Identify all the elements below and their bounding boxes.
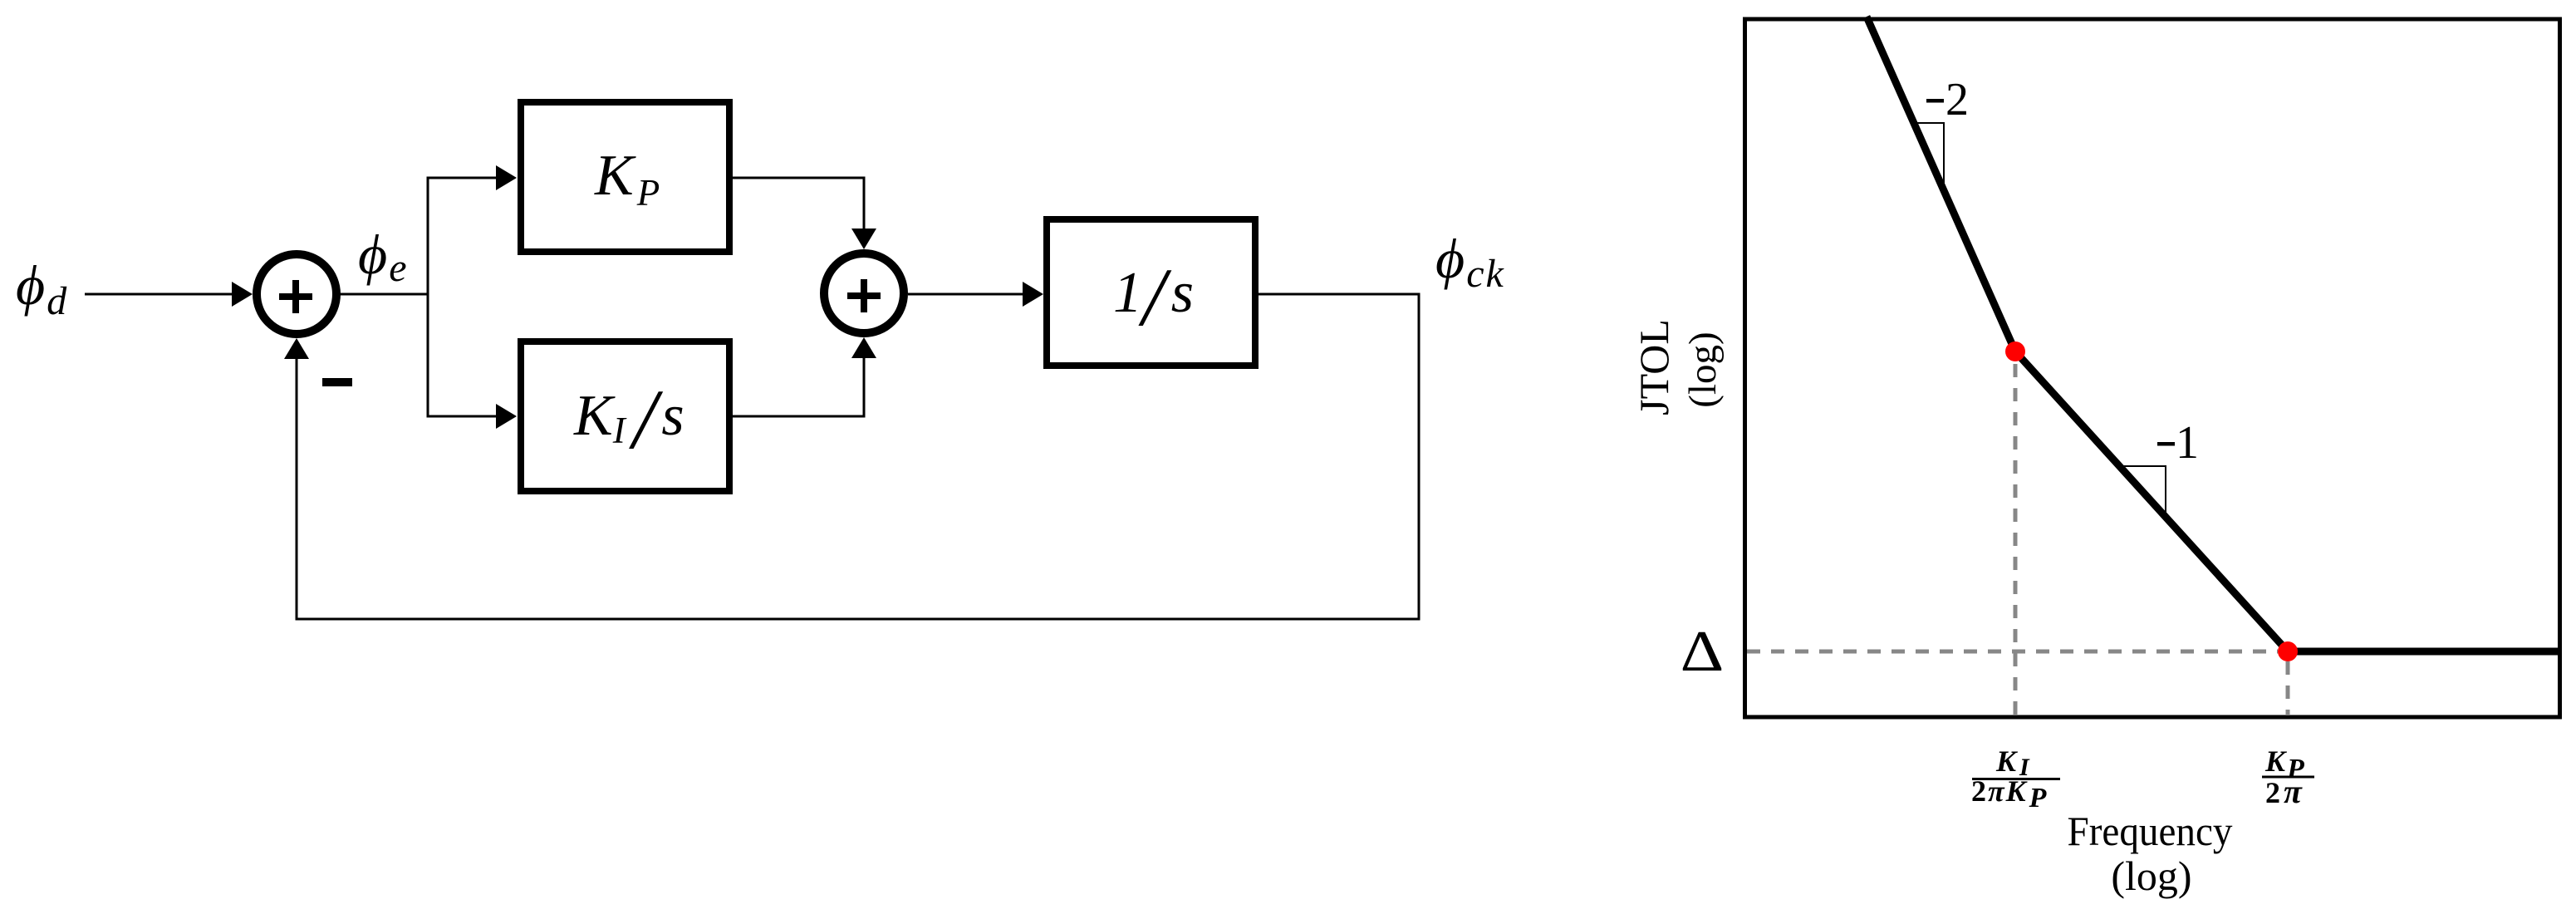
arrowhead into S2 top bbox=[851, 228, 876, 249]
arrowhead into KP block bbox=[496, 165, 517, 190]
svg-text:2π: 2π bbox=[2265, 773, 2303, 810]
arrowhead into S1 bottom bbox=[284, 338, 309, 359]
summing junction S2 bbox=[824, 253, 904, 333]
wire S2 to integrator block bbox=[908, 293, 1023, 296]
slope marker -1 bbox=[2119, 466, 2166, 517]
slope marker -2 bbox=[1914, 123, 1944, 190]
dashed level line at Delta bbox=[1747, 650, 2278, 654]
summing junction S1 bbox=[257, 254, 336, 334]
plus sign in S2 bbox=[847, 292, 881, 299]
wire integrator output and feedback path bbox=[297, 294, 1419, 619]
arrowhead into integrator bbox=[1023, 282, 1043, 307]
block 1/s (integrator) bbox=[1047, 219, 1255, 366]
wire KP output to summer S2 bbox=[733, 178, 864, 230]
label -2 bbox=[1926, 99, 1944, 103]
wire branch vertical bbox=[427, 178, 429, 416]
block KP (proportional gain) bbox=[521, 102, 729, 252]
minus sign at S1 feedback input bbox=[322, 378, 352, 386]
svg-text:2: 2 bbox=[1945, 74, 1969, 125]
breakpoint dot 2 bbox=[2278, 641, 2298, 661]
wire branch to KP block bbox=[427, 177, 498, 179]
wire input to summer S1 bbox=[85, 293, 233, 296]
arrowhead into KI block bbox=[496, 404, 517, 429]
svg-text:Frequency: Frequency bbox=[2068, 808, 2233, 854]
plus sign in S1 bbox=[279, 293, 312, 300]
breakpoint dot 1 bbox=[2005, 342, 2025, 361]
arrowhead into summer S1 bbox=[232, 282, 253, 307]
fraction KI/(2piKP) bar bbox=[1972, 778, 2060, 780]
plot frame bbox=[1745, 19, 2560, 717]
fraction KP/2pi bar bbox=[2262, 776, 2314, 779]
svg-text:Δ: Δ bbox=[1681, 619, 1725, 683]
block KI/s (integral path) bbox=[521, 342, 729, 491]
wire S1 output to branch node bbox=[339, 293, 429, 296]
JTOL curve bbox=[1867, 17, 2560, 651]
svg-text:JTOL: JTOL bbox=[1631, 319, 1677, 415]
svg-text:1: 1 bbox=[2176, 417, 2199, 469]
svg-text:(log): (log) bbox=[1681, 332, 1725, 407]
svg-text:(log): (log) bbox=[2111, 853, 2191, 899]
dashed vertical at KP/(2pi) bbox=[2286, 661, 2290, 715]
arrowhead into S2 bottom bbox=[851, 337, 876, 358]
dashed vertical at KI/(2piKP) bbox=[2014, 364, 2018, 715]
wire KI output to summer S2 bbox=[733, 356, 864, 416]
wire branch to KI block bbox=[427, 415, 498, 418]
label -1 bbox=[2157, 442, 2175, 446]
